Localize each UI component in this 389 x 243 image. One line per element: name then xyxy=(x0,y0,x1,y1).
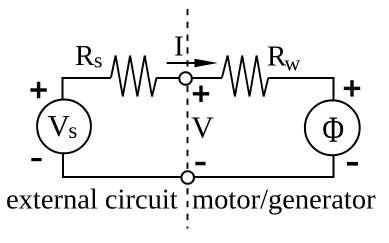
svg-text:external circuit: external circuit xyxy=(6,185,178,216)
node A (top junction) xyxy=(179,72,192,85)
current arrow I xyxy=(167,59,218,67)
node B (bottom junction) xyxy=(181,171,194,184)
wire: Vs top lead up and right to Rs xyxy=(63,78,112,100)
wire: bottom rail left of node B to Vs bottom lead xyxy=(63,154,181,177)
resistor Rs xyxy=(111,56,157,97)
minus sign at Phi xyxy=(347,162,358,166)
svg-text:V: V xyxy=(191,109,214,144)
minus sign at Vs xyxy=(31,158,41,161)
wire: Rw right to motor top lead xyxy=(268,78,333,101)
wire: Rs to node A xyxy=(157,77,180,79)
wire: node A to Rw xyxy=(192,77,222,79)
svg-text:I: I xyxy=(174,31,184,63)
dashed separator line xyxy=(187,9,189,229)
svg-text:Φ: Φ xyxy=(322,110,344,151)
minus sign at node V xyxy=(195,162,205,166)
plus sign at Phi xyxy=(344,80,360,96)
wire: motor bottom lead down to bottom rail xyxy=(195,155,334,177)
motor/generator Phi circle xyxy=(305,100,360,155)
source Vs circle xyxy=(37,100,91,154)
plus sign at Vs xyxy=(30,82,46,98)
svg-text:motor/generator: motor/generator xyxy=(192,185,376,216)
resistor Rw xyxy=(222,56,268,97)
plus sign at node V xyxy=(193,86,209,102)
